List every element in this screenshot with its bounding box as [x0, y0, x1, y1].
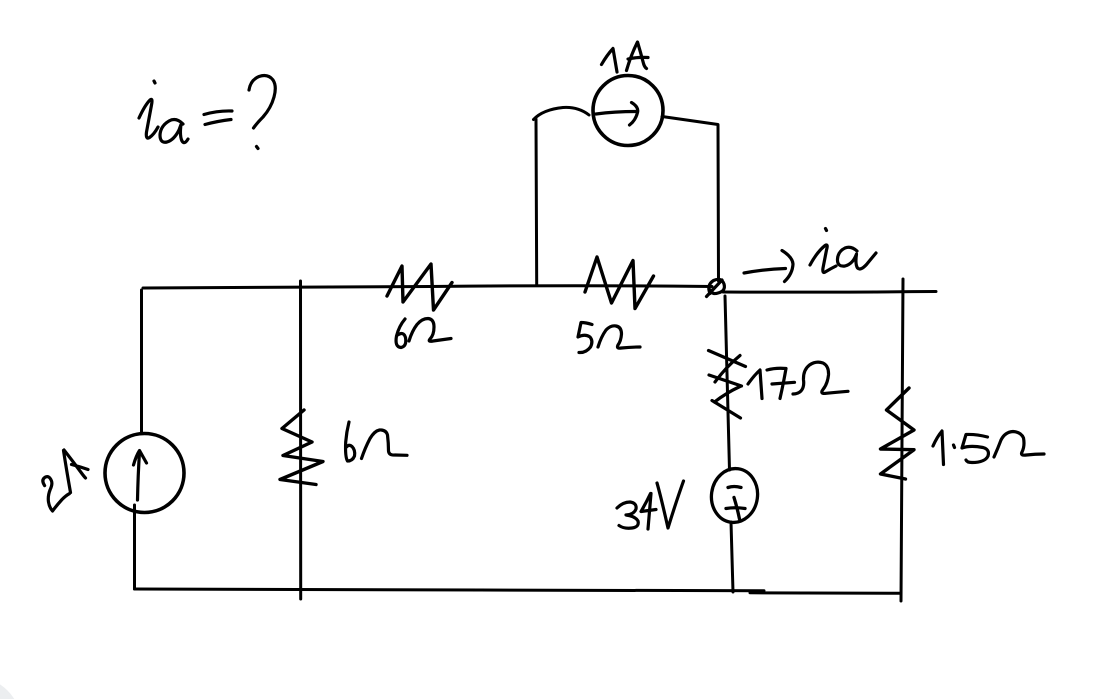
wire node a to right branch	[723, 290, 936, 294]
resistor R1 6ohm horizontal	[387, 264, 452, 310]
wire top horizontal	[143, 286, 712, 288]
wire 6ohm branch vertical	[299, 281, 302, 599]
value label 1A (I1)	[602, 42, 649, 72]
current source I2 2A	[105, 434, 184, 513]
value label 34V	[617, 481, 684, 529]
corner blob decoration	[0, 677, 21, 699]
wire 1A right lead	[662, 117, 719, 282]
value label 6ohm (R1)	[396, 319, 451, 348]
current source I1 1A	[593, 76, 663, 146]
value label 6ohm (R3)	[346, 422, 407, 461]
value label 17ohm (R4)	[748, 362, 848, 398]
current arrow ia	[744, 269, 786, 274]
wire 34V bottom lead	[731, 522, 733, 592]
resistor R3 6ohm vertical	[280, 410, 323, 485]
wire 2A bottom lead	[133, 505, 136, 589]
resistor R4 17ohm	[709, 351, 746, 419]
value label 1.5ohm (R5)	[933, 431, 1044, 465]
wire 17ohm branch vertical	[725, 296, 730, 470]
value label 2A (I2)	[43, 450, 88, 511]
voltage source V1 34V	[708, 466, 761, 526]
node a	[707, 279, 725, 296]
resistor R2 5ohm	[585, 257, 654, 309]
wire 1.5ohm branch vertical	[901, 279, 903, 601]
wire 1A wavy lead left	[534, 107, 590, 119]
resistor R5 1.5ohm	[881, 388, 915, 479]
label ia=?	[139, 76, 275, 149]
bottom wire	[135, 589, 765, 591]
label ia	[810, 229, 876, 273]
value label 5ohm (R2)	[578, 323, 640, 353]
wire 1A branch left vertical	[535, 119, 539, 285]
wire left vertical (2A branch top)	[140, 290, 143, 433]
